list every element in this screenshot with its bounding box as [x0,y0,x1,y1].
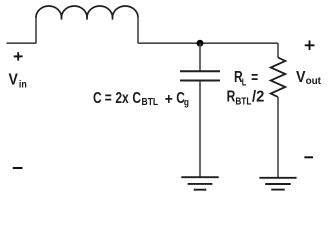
svg-text:R: R [227,87,236,105]
svg-text:L: L [242,76,247,87]
capacitor C bottom plate [180,80,220,82]
node J1: junction at capacitor top [197,40,204,47]
svg-text:out: out [306,76,322,87]
label: RL = [234,67,258,87]
svg-text:BTL: BTL [142,96,159,107]
resistor RL zigzag [271,58,286,98]
wire W1c: inductor right lead [137,17,139,44]
wire W6: resistor to ground [277,97,279,178]
label: plus sign of Vout port [305,40,315,50]
svg-text:=: = [251,68,258,86]
label: minus sign of Vin port [13,167,23,169]
ground GND2 (load branch) [259,178,296,190]
capacitor C top plate [180,70,220,72]
wire W2: inductor to resistor branch (top rail) [138,42,278,44]
svg-text:V: V [296,68,306,86]
svg-text:C: C [132,88,141,106]
svg-text:2x: 2x [115,88,128,106]
svg-text:C: C [93,88,102,106]
svg-text:BTL: BTL [235,96,251,107]
label: Vout [296,68,322,87]
wire W1: Vin+ terminal to inductor [7,42,37,44]
svg-text:g: g [184,97,189,108]
label: C = 2x CBTL + Cg [93,88,189,108]
svg-text:=: = [105,88,112,106]
wire W4: capacitor to ground [199,81,201,177]
svg-text:V: V [9,71,18,89]
svg-text:/2: /2 [252,88,264,106]
svg-text:in: in [19,79,27,91]
wire W1b: inductor left lead [35,17,37,44]
svg-text:+: + [165,90,173,108]
label: Vin [9,71,28,91]
inductor L1 [36,6,138,20]
label: minus sign of Vout port [304,156,313,158]
wire W5: top rail down to resistor [277,43,279,57]
wire W3: junction down to capacitor [199,43,201,70]
label: RBTL/2 [227,87,265,107]
ground GND1 (capacitor branch) [181,177,218,190]
label: plus sign of Vin port [14,52,23,60]
